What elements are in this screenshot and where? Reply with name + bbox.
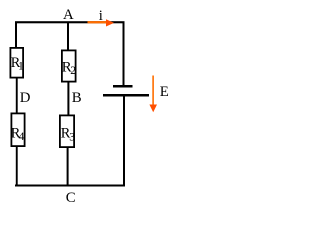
current arrow i (orange, on top rail)	[88, 19, 115, 26]
svg-text:C: C	[66, 190, 76, 206]
resistor R1	[10, 48, 24, 78]
svg-text:E: E	[160, 84, 169, 100]
wire middle branch: node A to R2	[67, 23, 69, 53]
battery E bottom long plate	[103, 94, 149, 97]
resistor R4	[11, 113, 25, 146]
svg-text:3: 3	[69, 132, 75, 144]
svg-text:D: D	[20, 90, 31, 106]
wire middle branch: R3 to bottom rail	[67, 148, 69, 187]
resistor R2	[62, 50, 77, 81]
wire bottom rail (node C rail)	[15, 185, 125, 187]
wire right branch: battery bottom plate to bottom rail	[123, 96, 125, 187]
svg-text:4: 4	[19, 131, 25, 143]
wire right branch: rail to battery top plate	[123, 23, 125, 86]
svg-text:i: i	[99, 8, 103, 24]
svg-text:1: 1	[18, 61, 24, 73]
wire left branch: R1 to R4 (through node D)	[16, 78, 18, 115]
svg-text:A: A	[63, 7, 74, 23]
wire top rail (node A rail)	[15, 21, 125, 23]
wire left branch: R4 to bottom rail	[16, 147, 18, 187]
battery E top short plate	[113, 85, 133, 88]
resistor R3	[60, 115, 75, 147]
wire middle branch: R2 to R3 (through node B)	[67, 83, 69, 118]
emf arrow E (orange, pointing down)	[149, 76, 157, 113]
wire left branch: rail to R1	[15, 22, 17, 48]
svg-text:B: B	[72, 90, 82, 106]
svg-text:2: 2	[70, 65, 76, 77]
